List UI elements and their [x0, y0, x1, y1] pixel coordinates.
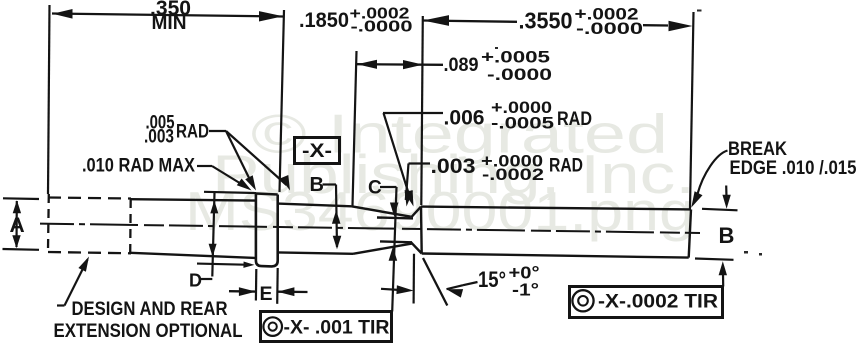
svg-text:15°: 15° — [478, 267, 506, 292]
svg-text:-.0000: -.0000 — [576, 20, 643, 38]
svg-text:D: D — [189, 271, 202, 291]
svg-text:A: A — [10, 214, 25, 237]
svg-text:BREAK: BREAK — [728, 139, 787, 160]
svg-text:EDGE .010 /.015: EDGE .010 /.015 — [730, 158, 857, 179]
svg-text:DESIGN AND REAR: DESIGN AND REAR — [72, 299, 228, 320]
svg-text:B: B — [719, 223, 735, 248]
svg-text:EXTENSION OPTIONAL: EXTENSION OPTIONAL — [54, 320, 243, 342]
svg-text:-1°: -1° — [512, 280, 539, 300]
svg-text:RAD: RAD — [176, 122, 209, 143]
svg-text:-X- .001 TIR: -X- .001 TIR — [284, 317, 390, 339]
svg-text:E: E — [260, 283, 273, 305]
svg-text:.010 RAD MAX: .010 RAD MAX — [82, 156, 195, 177]
svg-text:.003: .003 — [431, 155, 476, 178]
svg-text:.089: .089 — [444, 54, 479, 76]
svg-text:-X-.0002 TIR: -X-.0002 TIR — [598, 291, 718, 313]
svg-text:RAD: RAD — [549, 155, 583, 177]
svg-text:-.0000: -.0000 — [487, 66, 552, 84]
svg-text:MIN: MIN — [152, 13, 187, 34]
svg-text:-.0002: -.0002 — [482, 166, 544, 184]
svg-text:-X-: -X- — [302, 141, 332, 162]
svg-text:RAD: RAD — [557, 108, 592, 130]
svg-text:-.0005: -.0005 — [491, 115, 554, 133]
svg-text:.1850: .1850 — [299, 9, 349, 32]
svg-text:C: C — [368, 178, 382, 199]
svg-text:.003: .003 — [144, 127, 174, 148]
svg-text:.006: .006 — [444, 107, 485, 130]
svg-text:.3550: .3550 — [519, 7, 573, 33]
svg-text:B: B — [310, 174, 324, 196]
svg-text:-.0000: -.0000 — [351, 19, 413, 36]
svg-text:+.0005: +.0005 — [481, 49, 550, 67]
